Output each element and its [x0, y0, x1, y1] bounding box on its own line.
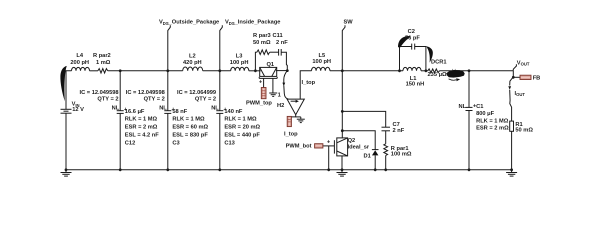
wire H2 output up to rail	[300, 71, 311, 99]
node SW	[341, 69, 344, 72]
wire C1 branch upper	[468, 71, 470, 108]
svg-text:1 mΩ: 1 mΩ	[96, 60, 111, 66]
capacitor C7	[382, 127, 391, 131]
capacitor C12	[117, 111, 124, 114]
svg-text:D1: D1	[364, 154, 371, 160]
wire C12 branch lower	[119, 113, 121, 169]
wire H2 apex to I_top source and ground	[289, 115, 295, 117]
svg-text:H2: H2	[277, 103, 284, 109]
svg-text:50 mΩ: 50 mΩ	[515, 128, 533, 134]
svg-text:C3: C3	[172, 141, 179, 147]
current arrow annotation (inductor current)	[446, 69, 464, 78]
wire snubber left leg	[255, 52, 256, 71]
source I_top (red box)	[287, 116, 291, 126]
svg-text:ESL = 830 pF: ESL = 830 pF	[172, 133, 208, 139]
svg-text:ESR = 60 mΩ: ESR = 60 mΩ	[172, 125, 208, 131]
wire battery to bottom rail	[65, 113, 67, 170]
wire R1 to bottom rail	[511, 131, 513, 170]
ground Q1 gate	[269, 78, 277, 96]
arrow inside H2	[291, 100, 299, 103]
svg-text:IOUT: IOUT	[515, 91, 526, 97]
wire L1 to DCR1	[421, 70, 428, 72]
svg-text:800 μF: 800 μF	[476, 111, 495, 117]
svg-text:NL: NL	[211, 105, 219, 111]
svg-text:Q1: Q1	[267, 62, 275, 68]
svg-text:C1: C1	[476, 104, 483, 110]
svg-text:100 pH: 100 pH	[230, 60, 249, 66]
wire current probe I_OUT (wavy with arrow)	[510, 77, 514, 121]
svg-text:Ideal_sr: Ideal_sr	[348, 145, 370, 151]
node bottom gate return	[327, 168, 330, 171]
wire C13 branch lower	[219, 113, 221, 169]
wire C2 branch	[400, 47, 412, 71]
capacitor C1	[466, 107, 473, 110]
svg-text:58 nF: 58 nF	[172, 109, 187, 115]
wire C2 right leg	[415, 47, 426, 71]
ground right	[506, 170, 517, 176]
svg-text:ESR = 2 mΩ: ESR = 2 mΩ	[476, 126, 509, 132]
svg-text:200 pH: 200 pH	[70, 60, 89, 66]
hook node V_DS_Inside_Package	[220, 25, 223, 71]
wire top rail left V_IN corner	[66, 71, 72, 110]
wire C11 right leg to Q1 source node	[281, 52, 287, 70]
wire C3 branch upper	[167, 71, 169, 111]
svg-text:2 nF: 2 nF	[276, 40, 288, 46]
wire Q2 gate	[323, 145, 335, 147]
node Q1 drain	[254, 69, 257, 72]
wire SW down to Q2	[341, 71, 343, 138]
capacitor C3	[164, 111, 171, 114]
svg-text:ESR = 20 mΩ: ESR = 20 mΩ	[224, 125, 260, 131]
capacitor C13	[216, 111, 223, 114]
arrowhead I_OUT probe	[508, 86, 511, 90]
wire L2 to L3	[203, 70, 231, 72]
svg-text:C12: C12	[125, 141, 135, 147]
capacitor C2	[412, 44, 415, 50]
diode D1	[372, 150, 379, 156]
svg-text:L2: L2	[189, 53, 196, 59]
inductor L2	[183, 67, 203, 71]
wire DCR1 to output node	[439, 70, 513, 72]
node C3 junction	[166, 69, 169, 72]
node bottom R1	[510, 168, 513, 171]
resistor Rpar1	[384, 144, 388, 156]
svg-text:I_top: I_top	[302, 80, 316, 86]
wire C3 branch lower	[167, 113, 169, 169]
svg-text:RLK = 1 MΩ: RLK = 1 MΩ	[172, 117, 205, 123]
transistor Q1 body	[259, 67, 277, 78]
wire D1 to bottom rail	[374, 155, 376, 169]
svg-text:QTY = 2: QTY = 2	[144, 97, 165, 103]
node C1 junction	[468, 69, 471, 72]
svg-text:R par3: R par3	[253, 33, 271, 39]
wire C12 branch upper	[119, 71, 121, 111]
svg-text:16.6 μF: 16.6 μF	[125, 109, 145, 115]
svg-text:FB: FB	[533, 76, 541, 82]
node bottom C13	[218, 168, 221, 171]
wire Rpar3 to C11	[270, 51, 279, 53]
svg-text:2 nF: 2 nF	[393, 128, 405, 134]
ground middle	[337, 170, 348, 176]
ground H2	[297, 117, 305, 123]
inductor L4	[72, 67, 90, 70]
wire Q1 source to node	[276, 70, 287, 72]
node Q1 source	[286, 69, 289, 72]
inductor L3	[231, 67, 249, 71]
wire D1 tap	[342, 131, 375, 150]
svg-text:SW: SW	[344, 20, 354, 26]
svg-text:QTY = 2: QTY = 2	[97, 97, 118, 103]
svg-text:L5: L5	[319, 53, 326, 59]
svg-text:100 pH: 100 pH	[312, 59, 331, 65]
wire L3 to Q1 drain	[249, 70, 261, 72]
svg-text:VOUT: VOUT	[517, 60, 530, 66]
wire FB stub	[513, 76, 520, 78]
current-loop arrow annotation (C2 left corner)	[398, 36, 411, 47]
wire Q2 branch C7 tap	[342, 111, 385, 127]
wire bottom rail	[66, 169, 512, 171]
battery V_IN	[61, 108, 72, 110]
svg-text:ESL = 440 pF: ESL = 440 pF	[224, 133, 260, 139]
inductor L1	[403, 67, 421, 70]
svg-text:IC = 12.064999: IC = 12.064999	[177, 90, 216, 96]
resistor DCR1	[428, 69, 440, 73]
inductor L5	[312, 67, 330, 71]
wire V_OUT corner down	[512, 71, 514, 78]
svg-text:RLK = 1 MΩ: RLK = 1 MΩ	[125, 117, 158, 123]
node bottom Q2 source	[341, 168, 344, 171]
wire C7 to Rpar1	[385, 131, 387, 144]
wire SW stem up	[342, 25, 345, 71]
node bottom D1	[374, 168, 377, 171]
svg-text:L4: L4	[76, 53, 83, 59]
resistor R1 (box)	[510, 121, 514, 131]
node C7 branch tap	[341, 110, 344, 113]
hook node V_DS_Outside_Package	[168, 25, 171, 71]
node FB junction	[512, 76, 515, 79]
node L1 right	[425, 69, 428, 72]
svg-text:QTY = 2: QTY = 2	[195, 97, 216, 103]
svg-text:C11: C11	[273, 33, 283, 39]
wire C1 branch lower	[468, 111, 470, 170]
svg-text:PWM_top: PWM_top	[246, 101, 272, 107]
svg-text:L3: L3	[236, 53, 243, 59]
node bottom battery	[65, 168, 68, 171]
svg-text:VDS_Inside_Package: VDS_Inside_Package	[225, 20, 280, 26]
svg-text:100 mΩ: 100 mΩ	[391, 152, 412, 158]
source PWM_top (red box)	[261, 78, 266, 98]
capacitor C11	[279, 49, 282, 56]
probe FB (red box)	[520, 75, 531, 79]
wire rail Rpar2 to L2	[108, 70, 183, 72]
svg-text:+: +	[327, 139, 331, 145]
current sensor H2 triangle	[287, 99, 304, 115]
svg-text:ESR = 2 mΩ: ESR = 2 mΩ	[125, 125, 158, 131]
svg-text:12 V: 12 V	[72, 107, 84, 113]
svg-text:IC = 12.049598: IC = 12.049598	[80, 90, 119, 96]
svg-text:56 pF: 56 pF	[405, 36, 420, 42]
resistor Rpar2	[98, 69, 108, 73]
svg-text:RLK = 1 MΩ: RLK = 1 MΩ	[224, 117, 257, 123]
svg-text:235 μΩ: 235 μΩ	[428, 72, 448, 78]
wire Rpar1 to bottom rail	[385, 156, 387, 170]
hook V_OUT label	[513, 64, 516, 71]
svg-text:R par2: R par2	[93, 53, 111, 59]
wire current probe I_top (wavy with arrow)	[284, 71, 289, 100]
svg-text:150 nH: 150 nH	[406, 82, 425, 88]
svg-text:RLK = 1 MΩ: RLK = 1 MΩ	[476, 118, 509, 124]
resistor Rpar3	[257, 50, 270, 55]
svg-text:PWM_bot: PWM_bot	[286, 143, 312, 149]
svg-text:ESL = 4.2 nF: ESL = 4.2 nF	[125, 133, 159, 139]
svg-text:C2: C2	[408, 29, 415, 35]
arrowhead I_top probe	[282, 83, 285, 87]
node L1 left	[398, 69, 401, 72]
node bottom C1	[468, 168, 471, 171]
svg-text:Q2: Q2	[348, 138, 356, 144]
svg-text:IC = 12.049598: IC = 12.049598	[126, 90, 165, 96]
svg-text:420 pH: 420 pH	[183, 60, 202, 66]
wire C13 branch upper	[219, 71, 221, 111]
node bottom Rpar1	[384, 168, 387, 171]
node bottom C12	[119, 168, 122, 171]
node bottom C3	[166, 168, 169, 171]
source PWM_bot (red box)	[315, 144, 323, 148]
svg-text:+: +	[259, 79, 263, 85]
current-loop arrow annotation (C2 right side)	[426, 46, 433, 62]
svg-text:NL: NL	[459, 104, 467, 110]
svg-text:50 mΩ: 50 mΩ	[253, 40, 271, 46]
current-loop arrow annotation (input loop)	[60, 66, 66, 101]
svg-text:NL: NL	[159, 105, 167, 111]
ground left	[61, 170, 72, 176]
wire Q2 gate return to rail	[328, 146, 330, 170]
node Q2 drain / D1 tap	[341, 129, 344, 132]
svg-text:I_top: I_top	[284, 132, 298, 138]
transistor Q2 body	[334, 138, 347, 156]
node C13 junction	[218, 69, 221, 72]
svg-text:C13: C13	[224, 141, 234, 147]
svg-text:VDS_Outside_Package: VDS_Outside_Package	[159, 20, 219, 26]
wire L4 to Rpar2	[90, 70, 98, 72]
svg-text:DCR1: DCR1	[431, 59, 447, 65]
wire Q2 source to bottom rail	[341, 156, 343, 170]
wire rail L5 to L1 node	[330, 70, 403, 72]
node C12 junction	[119, 69, 122, 72]
svg-text:NL: NL	[112, 105, 120, 111]
svg-text:140 nF: 140 nF	[224, 109, 243, 115]
svg-text:1: 1	[278, 93, 281, 99]
